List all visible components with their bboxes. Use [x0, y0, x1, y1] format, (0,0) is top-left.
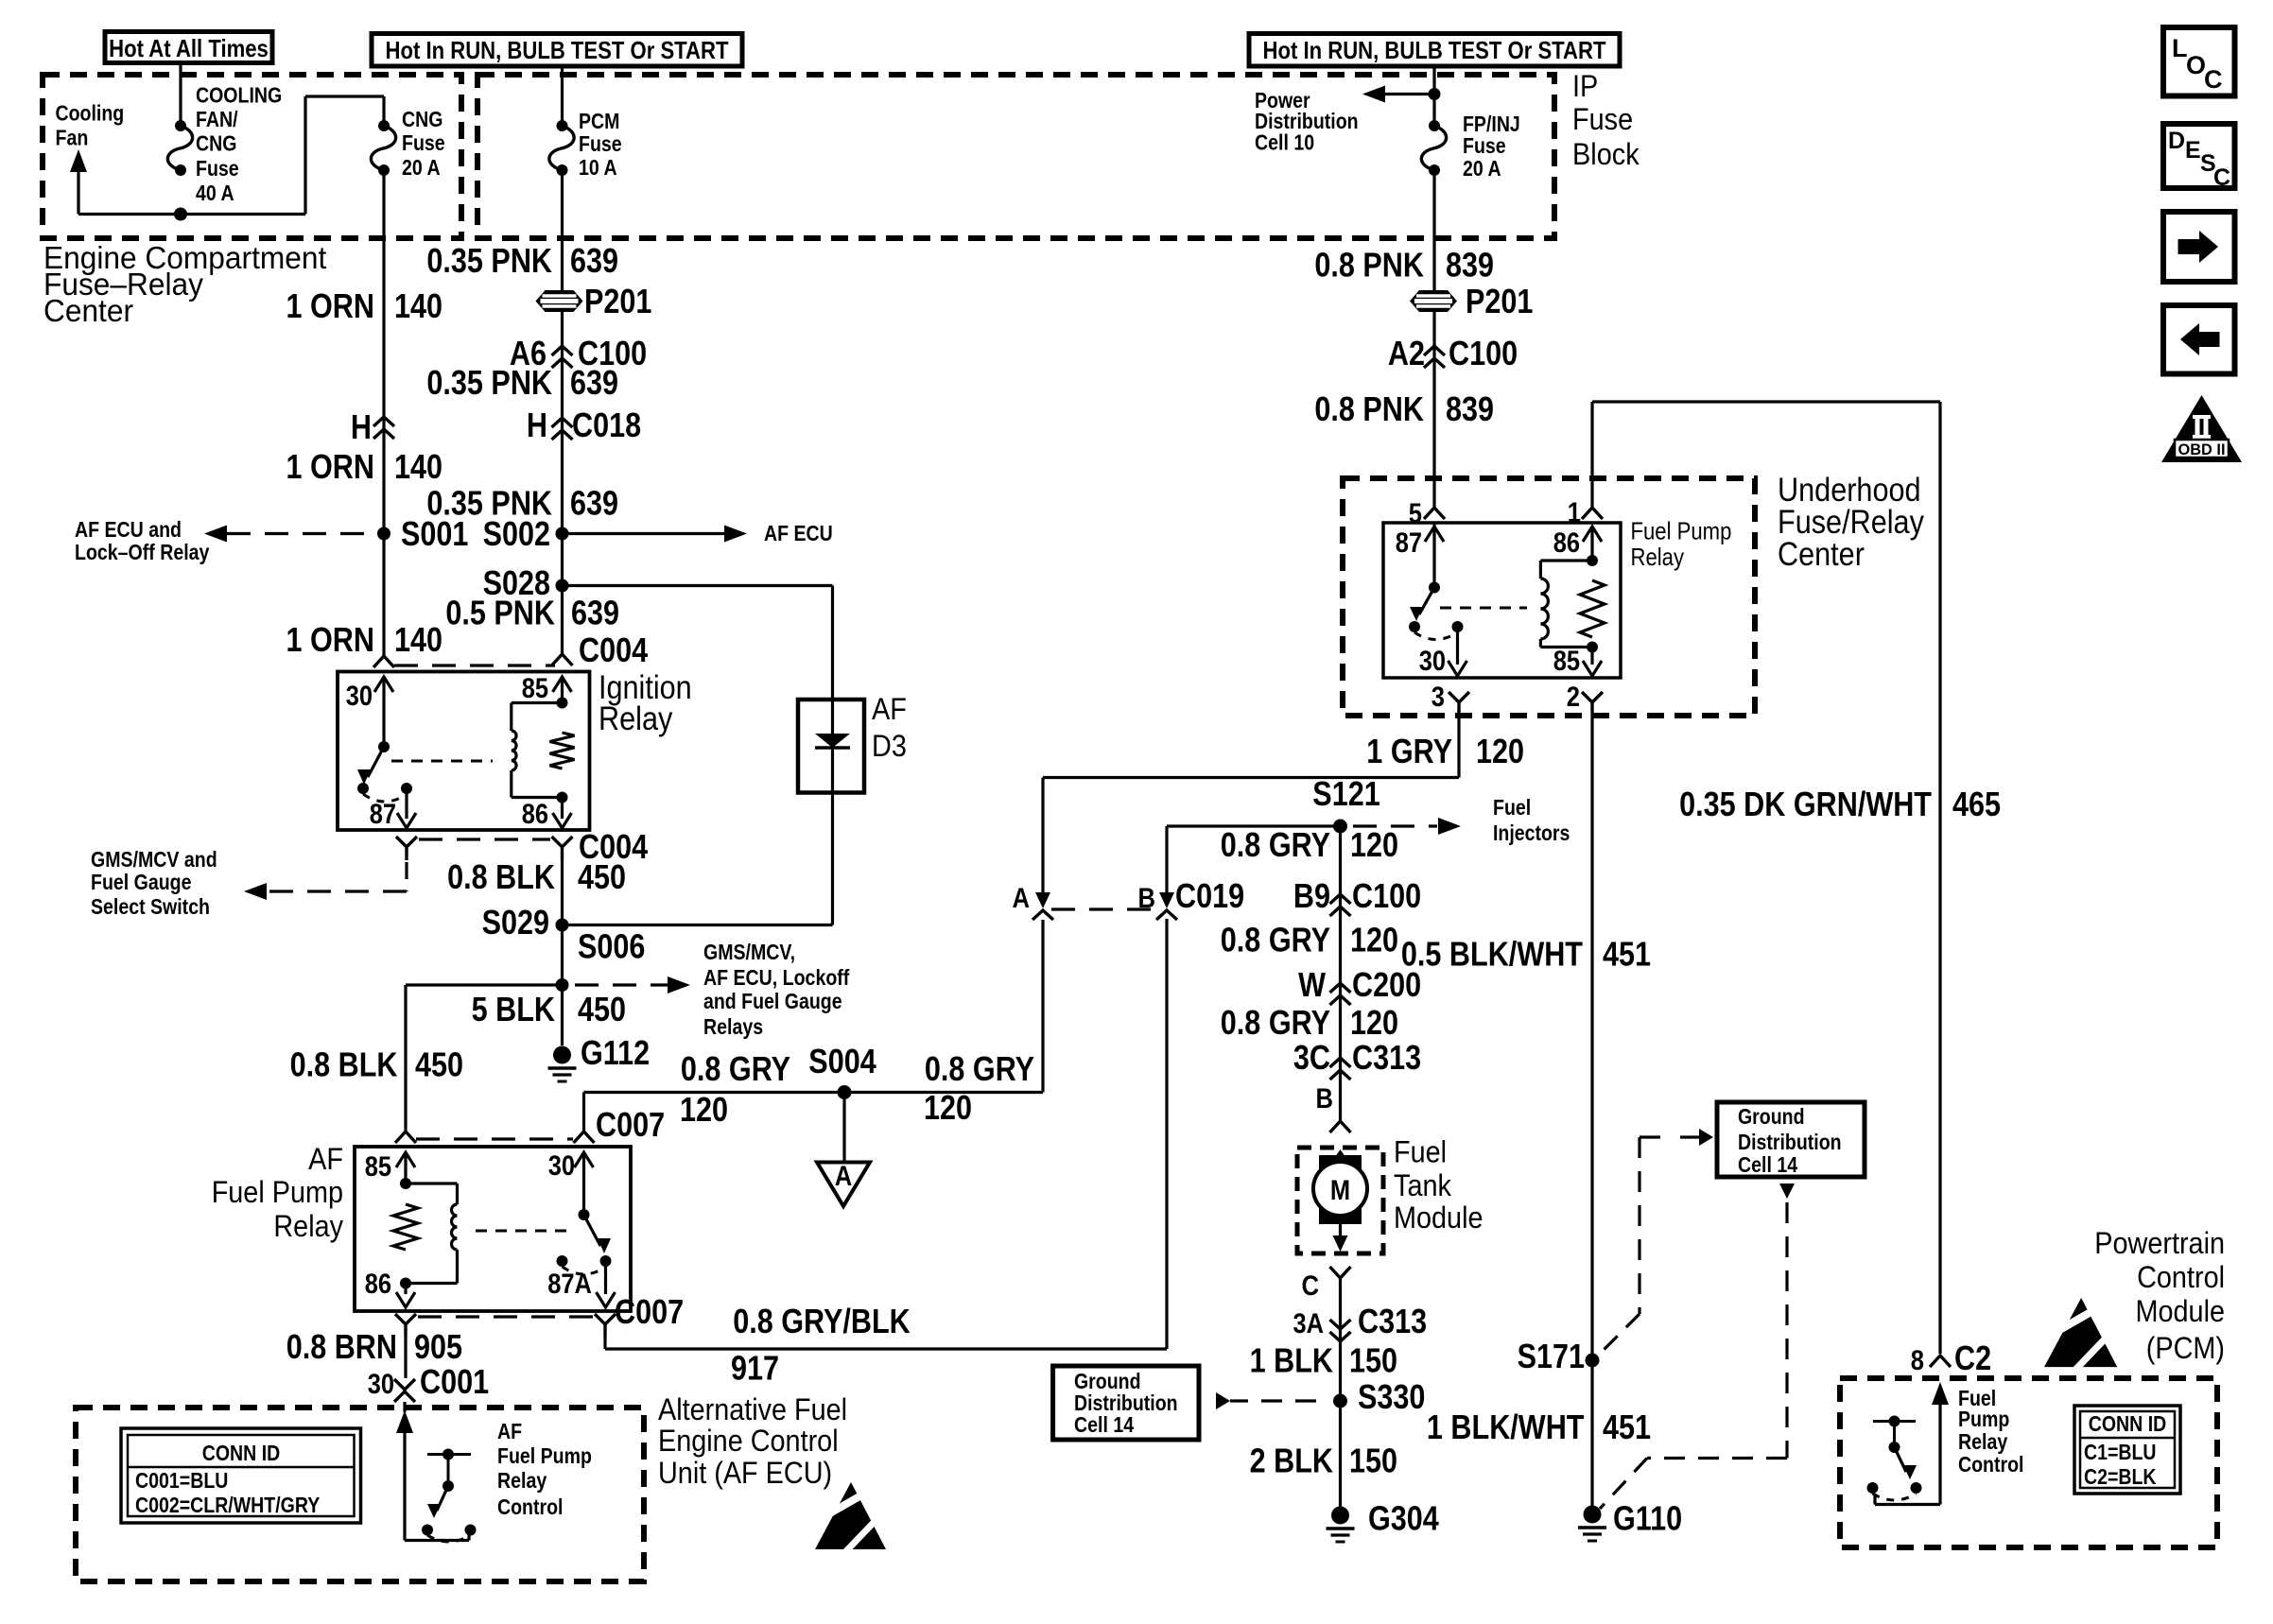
connector C007 above AF relay (pin 85 side)	[395, 1132, 416, 1143]
svg-text:1 ORN: 1 ORN	[286, 447, 375, 486]
svg-text:85: 85	[1553, 646, 1580, 677]
arrow into AF ECU	[396, 1410, 413, 1433]
underhood relay resistor	[1580, 580, 1605, 637]
splice S004	[838, 1085, 852, 1099]
svg-text:Alternative Fuel: Alternative Fuel	[658, 1392, 847, 1426]
svg-text:839: 839	[1446, 246, 1494, 285]
PCM internal L-wire to switch contact	[1875, 1503, 1940, 1506]
svg-text:FAN/: FAN/	[196, 107, 238, 131]
svg-text:30: 30	[368, 1369, 394, 1400]
svg-text:OBD II: OBD II	[2178, 441, 2226, 458]
relay box AF Fuel Pump Relay	[355, 1147, 631, 1311]
svg-text:B: B	[1138, 883, 1156, 914]
svg-text:B9: B9	[1293, 876, 1330, 915]
ignition relay pin 86 wire	[561, 798, 564, 820]
svg-text:C2: C2	[1954, 1339, 1991, 1377]
svg-text:917: 917	[731, 1349, 779, 1388]
svg-text:0.8 GRY: 0.8 GRY	[1221, 1003, 1330, 1042]
connector A2 C100	[1424, 346, 1445, 355]
svg-text:0.35 PNK: 0.35 PNK	[426, 363, 552, 402]
connector 3A C313	[1330, 1320, 1351, 1329]
svg-text:IP: IP	[1572, 69, 1598, 103]
svg-text:Cooling: Cooling	[56, 101, 125, 126]
svg-text:87: 87	[370, 799, 396, 830]
svg-text:0.5 BLK/WHT: 0.5 BLK/WHT	[1401, 935, 1583, 974]
box Ground Distribution Cell 14 (left)	[1053, 1366, 1199, 1440]
svg-text:C100: C100	[1352, 876, 1421, 915]
svg-text:30: 30	[1419, 646, 1446, 677]
svg-text:G110: G110	[1613, 1499, 1682, 1538]
svg-text:8: 8	[1911, 1345, 1924, 1376]
AF relay switch pivot and arm	[579, 1209, 590, 1220]
svg-text:140: 140	[394, 447, 442, 486]
ignition relay dashed actuator link	[391, 760, 493, 763]
svg-text:Engine Control: Engine Control	[658, 1424, 839, 1458]
wire 0.8 BRN 905 below AF relay	[404, 1336, 407, 1378]
svg-text:Fuse: Fuse	[1463, 133, 1506, 158]
wire from S002 to AF ECU arrow	[563, 532, 727, 535]
svg-text:Fuse: Fuse	[1572, 102, 1633, 136]
svg-text:AF: AF	[872, 692, 907, 726]
ignition relay coil	[510, 703, 512, 732]
svg-text:P201: P201	[1466, 282, 1533, 320]
svg-text:COOLING: COOLING	[196, 83, 282, 108]
svg-text:0.8 GRY: 0.8 GRY	[1221, 921, 1330, 959]
junction dot to Power Distribution	[1429, 88, 1441, 100]
svg-text:E: E	[2185, 137, 2201, 164]
ground G304	[1331, 1507, 1349, 1525]
svg-text:C001: C001	[420, 1362, 489, 1401]
svg-text:Fan: Fan	[56, 126, 89, 150]
svg-text:3: 3	[1431, 682, 1445, 713]
svg-text:GMS/MCV and: GMS/MCV and	[91, 847, 217, 872]
svg-text:C007: C007	[596, 1105, 665, 1144]
wire 0.8 PNK 839 down	[1432, 170, 1435, 507]
svg-text:(PCM): (PCM)	[2146, 1331, 2225, 1365]
in-line connector C019 pin A	[1035, 892, 1050, 908]
CONN ID table (AF ECU)	[121, 1428, 361, 1523]
label box "Hot In RUN, BULB TEST Or START" (right)	[1249, 34, 1620, 67]
connector 8 C2	[1930, 1356, 1951, 1367]
wire 0.5 BLK/WHT 451 from pin 2 down	[1590, 713, 1593, 1514]
underhood relay switch pivot and arm	[1429, 582, 1440, 594]
splice S029	[556, 919, 569, 932]
svg-text:86: 86	[365, 1269, 391, 1300]
junction dot below fuse	[174, 208, 187, 221]
svg-text:S171: S171	[1518, 1337, 1585, 1375]
dashed box Powertrain Control Module	[1840, 1378, 2217, 1547]
fuse CNG 20 A	[378, 120, 390, 131]
wire from S004 to page connector A	[842, 1093, 845, 1163]
svg-text:Pump: Pump	[1958, 1407, 2009, 1431]
PCM switch T-bar	[1873, 1420, 1916, 1423]
splice S001	[377, 527, 390, 541]
wire to cooling fan arrow	[78, 213, 181, 216]
svg-text:Injectors: Injectors	[1493, 821, 1570, 845]
svg-text:H: H	[527, 406, 547, 444]
svg-text:AF ECU: AF ECU	[764, 521, 833, 545]
svg-text:1 ORN: 1 ORN	[286, 620, 375, 659]
svg-text:85: 85	[522, 673, 548, 704]
fuel pump motor symbol	[1319, 1155, 1362, 1224]
fuse PCM 10 A	[557, 120, 568, 131]
svg-text:C007: C007	[615, 1292, 684, 1331]
svg-text:0.8 BLK: 0.8 BLK	[447, 857, 555, 896]
svg-text:Control: Control	[1958, 1452, 2024, 1477]
svg-text:Relay: Relay	[273, 1209, 343, 1243]
relay box Ignition Relay	[338, 672, 590, 831]
svg-text:S006: S006	[578, 927, 645, 966]
connector C004 below Ignition Relay	[396, 837, 417, 847]
svg-text:C002=CLR/WHT/GRY: C002=CLR/WHT/GRY	[135, 1493, 320, 1517]
AF ECU switch arm	[447, 1455, 450, 1487]
svg-text:0.8 BRN: 0.8 BRN	[286, 1327, 397, 1366]
svg-text:120: 120	[1350, 921, 1398, 959]
svg-text:S029: S029	[482, 903, 549, 942]
splice S006	[556, 978, 569, 992]
svg-text:Distribution: Distribution	[1738, 1130, 1842, 1154]
svg-text:C: C	[2204, 65, 2223, 94]
svg-text:Fuel: Fuel	[1394, 1135, 1447, 1169]
svg-text:0.8 BLK: 0.8 BLK	[290, 1045, 398, 1084]
in-line connector C019 pin B	[1159, 892, 1174, 908]
svg-text:0.5 PNK: 0.5 PNK	[445, 594, 555, 632]
ignition relay resistor	[550, 733, 575, 769]
connector C007 above AF relay (pin 30 side)	[574, 1132, 595, 1143]
splice S171	[1586, 1354, 1600, 1368]
dashed reference to AF ECU and Lock-Off Relay	[227, 532, 376, 535]
ignition relay switch pivot and arm	[378, 741, 390, 752]
wire 1 ORN 140 down from CNG fuse	[382, 170, 385, 656]
wire from fuse junction to CNG fuse	[181, 213, 305, 216]
underhood relay dashed actuator link	[1440, 607, 1527, 610]
wire below A to S004 line	[1041, 920, 1044, 1093]
dashed box IP Fuse Block	[477, 75, 1554, 238]
svg-text:0.8 GRY: 0.8 GRY	[925, 1049, 1034, 1088]
svg-text:Relays: Relays	[703, 1014, 763, 1039]
in-line connector P201 (left)	[536, 290, 583, 312]
svg-text:Relay: Relay	[1631, 543, 1685, 571]
AF ECU switch T-bar	[427, 1453, 471, 1456]
svg-text:40 A: 40 A	[196, 181, 234, 205]
svg-text:Module: Module	[1394, 1201, 1484, 1235]
svg-text:A: A	[835, 1161, 853, 1192]
svg-text:450: 450	[578, 857, 626, 896]
svg-text:A2: A2	[1388, 334, 1425, 372]
AF relay resistor	[393, 1204, 418, 1250]
svg-text:H: H	[351, 407, 372, 446]
svg-text:G112: G112	[581, 1033, 650, 1072]
page connector triangle A	[817, 1163, 870, 1207]
underhood relay switch contacts	[1409, 621, 1420, 632]
svg-text:Ground: Ground	[1738, 1104, 1805, 1129]
box Ground Distribution Cell 14 (right)	[1717, 1102, 1865, 1177]
svg-text:AF ECU and: AF ECU and	[75, 517, 182, 542]
svg-text:140: 140	[394, 286, 442, 325]
ignition relay coil bottom bar	[512, 796, 563, 799]
ESD warning symbol (PCM)	[2044, 1298, 2117, 1367]
svg-text:C: C	[1302, 1270, 1320, 1302]
wire from B up to S121	[1165, 826, 1168, 896]
svg-text:86: 86	[522, 799, 548, 830]
underhood relay pin 86 arrow and coil	[1583, 527, 1602, 542]
svg-text:P201: P201	[584, 282, 651, 320]
svg-text:AF ECU, Lockoff: AF ECU, Lockoff	[703, 965, 850, 990]
svg-text:20 A: 20 A	[402, 155, 441, 180]
svg-text:C004: C004	[579, 631, 648, 669]
fuse COOLING FAN/CNG 40 A	[175, 120, 186, 131]
svg-text:0.8 GRY: 0.8 GRY	[1221, 825, 1330, 864]
AF relay pin 86 wire	[404, 1284, 407, 1295]
svg-text:Fuel Pump: Fuel Pump	[1631, 517, 1732, 545]
svg-text:Block: Block	[1572, 137, 1640, 171]
svg-text:0.8 PNK: 0.8 PNK	[1314, 389, 1424, 428]
svg-text:Fuel Pump: Fuel Pump	[212, 1175, 343, 1209]
underhood relay pin 85 wire	[1590, 648, 1593, 665]
AF relay dashed actuator link	[476, 1230, 573, 1233]
svg-text:and Fuel Gauge: and Fuel Gauge	[703, 989, 842, 1013]
svg-text:D: D	[2168, 128, 2185, 154]
svg-text:639: 639	[571, 594, 619, 632]
wire 0.8 GRY 120 from C007 to S004	[582, 1093, 585, 1132]
connector H on ORN wire	[373, 417, 394, 426]
AF ECU switch contacts	[422, 1525, 433, 1536]
wire from Hot In RUN box to PCM fuse	[561, 66, 564, 126]
in-line connector 30 C001	[394, 1379, 415, 1390]
svg-text:S330: S330	[1358, 1377, 1425, 1416]
dashed connector line C007	[416, 1137, 573, 1140]
dashed connector line C007 (bottom)	[418, 1315, 593, 1318]
svg-text:Cell 10: Cell 10	[1255, 130, 1314, 155]
svg-text:Unit (AF ECU): Unit (AF ECU)	[658, 1456, 832, 1490]
diode symbol	[831, 700, 834, 793]
svg-text:Fuel Gauge: Fuel Gauge	[91, 870, 192, 894]
svg-text:Cell 14: Cell 14	[1074, 1412, 1134, 1437]
dashed reference to Fuel Injectors	[1353, 824, 1437, 827]
svg-text:C313: C313	[1352, 1038, 1421, 1077]
svg-text:C1=BLU: C1=BLU	[2084, 1440, 2157, 1464]
CONN ID table (PCM)	[2074, 1406, 2180, 1494]
icon OBD II triangle	[2161, 395, 2242, 462]
wire from Hot In RUN (right) down	[1432, 68, 1435, 126]
module internal pin arrow	[1331, 1152, 1350, 1166]
svg-text:639: 639	[570, 484, 618, 523]
dashed reference to GMS/MCV, AF ECU, Lockoff and Fuel Gauge Relays	[575, 983, 668, 986]
svg-text:Hot In RUN, BULB TEST Or START: Hot In RUN, BULB TEST Or START	[386, 36, 729, 64]
dashed reference from S171 to Ground Distribution	[1699, 1129, 1713, 1146]
fuse FP/INJ 20 A	[1429, 120, 1440, 131]
svg-text:120: 120	[680, 1090, 728, 1129]
svg-text:1 BLK/WHT: 1 BLK/WHT	[1427, 1408, 1585, 1446]
svg-text:AF: AF	[308, 1142, 343, 1176]
svg-text:CNG: CNG	[402, 107, 442, 131]
diode box AF D3	[798, 700, 864, 793]
wire from S006 down to ground G112	[561, 985, 564, 1045]
svg-text:451: 451	[1603, 1408, 1651, 1446]
connector A6 C100	[552, 346, 573, 355]
svg-text:1 ORN: 1 ORN	[286, 286, 375, 325]
svg-text:Fuel Pump: Fuel Pump	[497, 1443, 592, 1468]
svg-text:C100: C100	[1449, 334, 1518, 372]
svg-text:PCM: PCM	[579, 109, 619, 133]
connector 3C C313	[1330, 1058, 1351, 1067]
icon box back arrow	[2163, 305, 2235, 374]
svg-text:C313: C313	[1358, 1302, 1427, 1340]
splice S002	[556, 527, 569, 541]
svg-text:C001=BLU: C001=BLU	[135, 1468, 228, 1493]
svg-text:C018: C018	[572, 406, 641, 444]
svg-text:Hot At All Times: Hot At All Times	[109, 34, 269, 62]
svg-text:839: 839	[1446, 389, 1494, 428]
connector C007 below AF relay (pin 87A side)	[595, 1314, 616, 1324]
connector W C200	[1330, 983, 1351, 993]
svg-text:140: 140	[394, 620, 442, 659]
wire 0.35 DK GRN/WHT from pin 1 up and right to PCM	[1590, 402, 1593, 507]
connector pin 5	[1424, 508, 1445, 519]
wire 0.35 PNK 639 down	[561, 170, 564, 656]
dashed box Fuel Tank Module	[1297, 1148, 1383, 1253]
svg-text:120: 120	[1476, 732, 1524, 770]
svg-text:1 GRY: 1 GRY	[1366, 732, 1452, 770]
svg-text:A: A	[1013, 883, 1031, 914]
underhood relay coil bottom bar	[1540, 646, 1592, 648]
svg-text:450: 450	[578, 990, 626, 1028]
svg-text:20 A: 20 A	[1463, 156, 1501, 181]
svg-text:S002: S002	[483, 514, 550, 553]
svg-text:0.8 GRY/BLK: 0.8 GRY/BLK	[733, 1302, 911, 1340]
svg-text:D3: D3	[872, 729, 907, 763]
wire from Hot At All Times into fuse	[179, 63, 182, 127]
svg-text:B: B	[1316, 1083, 1334, 1114]
dashed reference from Ground Distribution down to G110	[1779, 1183, 1795, 1199]
module pin C chevron	[1330, 1267, 1351, 1278]
icon box LOC	[2163, 27, 2235, 96]
svg-text:CNG: CNG	[196, 131, 236, 156]
PCM switch contacts	[1867, 1482, 1879, 1494]
svg-text:Control: Control	[2137, 1260, 2225, 1294]
svg-text:CONN ID: CONN ID	[202, 1441, 281, 1465]
svg-text:Tank: Tank	[1394, 1168, 1452, 1202]
ESD warning symbol (AF ECU)	[815, 1482, 886, 1549]
svg-text:Fuse: Fuse	[402, 130, 445, 155]
svg-text:5 BLK: 5 BLK	[472, 990, 555, 1028]
svg-text:Lock–Off Relay: Lock–Off Relay	[75, 540, 210, 564]
dashed connector line C019	[1051, 907, 1159, 910]
ignition relay switch contacts	[357, 783, 369, 794]
svg-text:Relay: Relay	[1958, 1429, 2007, 1454]
svg-text:639: 639	[570, 241, 618, 280]
underhood relay pin 30 wire	[1456, 627, 1459, 665]
ignition relay pin 85 wire and coil top bar	[553, 677, 572, 692]
svg-text:0.8 PNK: 0.8 PNK	[1314, 246, 1424, 285]
svg-text:1 BLK: 1 BLK	[1250, 1341, 1333, 1380]
svg-text:465: 465	[1952, 785, 2001, 823]
svg-text:150: 150	[1349, 1442, 1397, 1480]
ground G112	[553, 1046, 571, 1064]
svg-text:905: 905	[414, 1327, 462, 1366]
splice S330	[1333, 1394, 1347, 1408]
connector pin 3	[1449, 692, 1469, 702]
arrow to Cooling Fan	[70, 149, 87, 172]
svg-text:Powertrain: Powertrain	[2094, 1226, 2225, 1260]
svg-text:87: 87	[1396, 527, 1422, 559]
svg-text:Select Switch: Select Switch	[91, 894, 210, 919]
svg-text:S004: S004	[808, 1042, 876, 1080]
connector B9 C100	[1330, 894, 1351, 904]
svg-text:C019: C019	[1175, 876, 1244, 915]
dashed arrow from Ground Distribution to S330	[1216, 1392, 1230, 1409]
PCM switch arm	[1893, 1422, 1896, 1448]
dashed box Alternative Fuel Engine Control Unit	[76, 1408, 644, 1581]
svg-text:Fuse: Fuse	[196, 156, 239, 181]
motor output arrow	[1339, 1224, 1342, 1238]
svg-text:Fuse: Fuse	[579, 131, 622, 156]
label box "Hot In RUN, BULB TEST Or START" (left)	[372, 34, 742, 67]
svg-text:O: O	[2186, 51, 2206, 79]
svg-text:Control: Control	[497, 1494, 564, 1519]
svg-text:451: 451	[1603, 935, 1651, 974]
AF relay coil top bar	[400, 1178, 411, 1189]
wire from module pin C down	[1339, 1278, 1342, 1515]
svg-text:AF: AF	[497, 1419, 522, 1443]
svg-text:Cell 14: Cell 14	[1738, 1152, 1797, 1177]
svg-text:Fuel: Fuel	[1493, 795, 1531, 820]
dashed box Underhood Fuse/Relay Center	[1343, 478, 1755, 716]
svg-text:C2=BLK: C2=BLK	[2084, 1464, 2157, 1489]
dashed reference to GMS/MCV and Fuel Gauge Select Switch	[405, 862, 408, 891]
svg-text:Hot In RUN, BULB TEST Or START: Hot In RUN, BULB TEST Or START	[1263, 36, 1606, 64]
svg-text:450: 450	[415, 1045, 463, 1084]
svg-text:2 BLK: 2 BLK	[1250, 1442, 1333, 1480]
svg-text:M: M	[1330, 1175, 1350, 1206]
dashed box Engine Compartment Fuse-Relay Center	[43, 75, 461, 238]
ignition relay pin 87 wire	[405, 788, 408, 819]
splice S121	[1333, 820, 1347, 834]
AF ECU internal L-wire to switch contact	[405, 1539, 469, 1542]
wire 0.8 GRY/BLK 917 from 87A to C019 B	[603, 1336, 606, 1349]
svg-text:120: 120	[1350, 1003, 1398, 1042]
svg-text:120: 120	[1350, 825, 1398, 864]
wire from S006 left down to C007	[406, 983, 563, 986]
ground G110	[1584, 1506, 1602, 1524]
arrow to Power Distribution Cell 10	[1379, 93, 1434, 95]
svg-text:2: 2	[1567, 682, 1580, 713]
svg-text:86: 86	[1553, 527, 1580, 559]
svg-text:30: 30	[346, 681, 373, 712]
connector C004 above Ignition Relay	[373, 656, 394, 667]
in-line connector P201 (right)	[1410, 290, 1457, 312]
svg-text:Relay: Relay	[497, 1468, 547, 1493]
connector pin 2	[1582, 692, 1603, 702]
connector pin 1	[1582, 508, 1603, 519]
wire below C004 to S029	[561, 860, 564, 985]
icon box forward arrow	[2163, 212, 2235, 282]
svg-text:0.35 PNK: 0.35 PNK	[426, 241, 552, 280]
svg-text:GMS/MCV,: GMS/MCV,	[703, 940, 795, 964]
relay box Fuel Pump Relay (underhood)	[1383, 523, 1621, 678]
underhood relay pin 87 arrow	[1432, 523, 1435, 526]
svg-text:87A: 87A	[547, 1269, 592, 1300]
svg-text:150: 150	[1349, 1341, 1397, 1380]
svg-text:10 A: 10 A	[579, 155, 617, 180]
connector H C018	[552, 418, 573, 427]
svg-text:Center: Center	[43, 293, 133, 328]
ignition relay pin 30 arrow	[374, 677, 393, 692]
svg-text:Module: Module	[2136, 1294, 2226, 1328]
svg-text:85: 85	[365, 1151, 391, 1183]
svg-text:30: 30	[548, 1150, 575, 1182]
svg-text:Relay: Relay	[599, 700, 673, 737]
